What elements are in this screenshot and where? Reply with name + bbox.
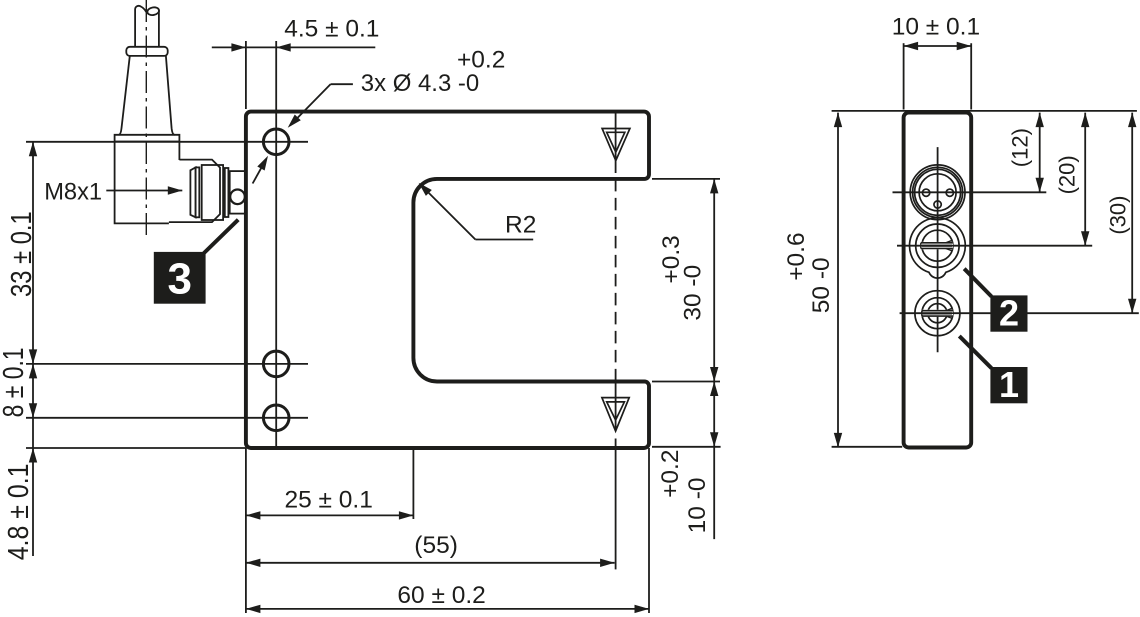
svg-text:33 ± 0.1: 33 ± 0.1 [5, 211, 38, 297]
dim 10 extension line right bottom [652, 446, 721, 448]
leader from 3x label to top hole [285, 84, 353, 131]
dim 8 dimension line [29, 364, 37, 418]
svg-text:4.5 ± 0.1: 4.5 ± 0.1 [284, 16, 379, 43]
svg-text:60 ± 0.2: 60 ± 0.2 [397, 582, 485, 609]
dim text 33 ± 0.1 rotated [5, 211, 38, 297]
dim (20) dimension line [1081, 113, 1089, 246]
svg-text:R2: R2 [505, 212, 536, 239]
M8 pin 3 [946, 189, 953, 196]
arrow M8x1 to connector [106, 186, 182, 194]
svg-text:10 -0: 10 -0 [684, 477, 711, 533]
svg-text:(55): (55) [414, 532, 458, 559]
dim 50 dimension line [834, 113, 842, 448]
leader from label 2 to pot 2 [964, 269, 991, 297]
optical axis extension below body [615, 448, 617, 569]
svg-text:+0.6: +0.6 [783, 232, 810, 280]
side view bottom extension line left [832, 446, 903, 448]
mounting hole middle [263, 351, 289, 377]
svg-text:8 ± 0.1: 8 ± 0.1 [0, 347, 30, 417]
connector boot body [115, 142, 180, 224]
M8 tip body at sensor [230, 171, 246, 214]
dim text (30) rotated [1105, 196, 1130, 235]
M8 locking detent circle [230, 190, 245, 205]
svg-text:(20): (20) [1054, 155, 1079, 194]
M8 coupling nut [202, 165, 223, 220]
side view common top extension line [832, 110, 1137, 112]
svg-text:4.8 ± 0.1: 4.8 ± 0.1 [2, 463, 34, 560]
svg-text:30 -0: 30 -0 [680, 265, 707, 321]
dim text 50 +0.6/-0 rotated [783, 232, 835, 313]
optical mark triangle top (emitter) [602, 129, 630, 161]
dim text 25 ± 0.1 [285, 487, 373, 514]
dim text 10 ± 0.1 [892, 14, 980, 41]
dim 25 dimension line [246, 511, 414, 519]
M8 connector face circles [910, 165, 965, 220]
dim text 4.8 ± 0.1 rotated [2, 463, 34, 560]
middle hole crosshair horizontal [26, 363, 308, 365]
connector flange [115, 135, 180, 142]
pot 2 inner circles [916, 224, 959, 267]
dim text 30 +0.3/-0 rotated [658, 235, 707, 320]
connector centerline dash-dot vertical [145, 0, 147, 237]
svg-text:3: 3 [167, 255, 191, 304]
dim 33 dimension line [29, 142, 37, 364]
svg-text:2: 2 [999, 293, 1019, 334]
M8 connector cable [135, 6, 160, 47]
label M8x1 [44, 179, 102, 206]
dim 4.5 dimension line with arrows [212, 43, 375, 51]
svg-text:25 ± 0.1: 25 ± 0.1 [285, 487, 373, 514]
dim 4.8 dimension line [29, 418, 37, 556]
dim (12) dimension line [1036, 113, 1044, 193]
sensor body side view [904, 113, 972, 448]
dim text 10 +0.2/-0 rotated [657, 450, 711, 534]
optical axis segment through bottom arm [615, 382, 617, 449]
pot 1 screw slot [922, 308, 953, 318]
pot 1 crosshair horizontal [900, 312, 1139, 314]
second leader arrow to top hole from lower left [253, 154, 272, 184]
dim 30 extension lines right [652, 179, 720, 382]
mounting hole top [263, 129, 289, 155]
pot 2 crosshair horizontal [897, 245, 1092, 247]
optical axis dashed centerline in slot [615, 179, 617, 382]
hole centerline vertical [275, 41, 277, 448]
dim text 4.5 ± 0.1 [284, 16, 379, 43]
callout label 2 black box [990, 293, 1027, 334]
dim (30) dimension line [1128, 113, 1136, 314]
dim text (20) rotated [1054, 155, 1079, 194]
dim 10 dimension line [710, 382, 718, 540]
label 3x Ø4.3 +0.2/-0 [361, 47, 506, 97]
callout label 1 black box [990, 364, 1027, 405]
bottom edge extension line left [26, 447, 246, 449]
svg-text:50 -0: 50 -0 [808, 257, 835, 313]
pot 2 screw slot [921, 240, 954, 251]
svg-text:(12): (12) [1008, 128, 1033, 167]
pot 1 circles [915, 291, 960, 336]
dim text (55) [414, 532, 458, 559]
dim (55) dimension line [246, 559, 615, 567]
M8 rear band [225, 168, 229, 217]
M8 face crosshair horizontal [893, 191, 1047, 193]
optical axis solid segment through top arm [615, 112, 617, 173]
pot 2 keyhole outline [910, 218, 966, 278]
svg-text:+0.2: +0.2 [457, 47, 505, 74]
top hole crosshair horizontal [26, 141, 308, 143]
dim 4.5 extension line body edge [245, 41, 247, 109]
svg-text:M8x1: M8x1 [44, 179, 102, 206]
connector strain relief taper [119, 56, 175, 135]
svg-text:(30): (30) [1105, 196, 1130, 235]
connector housing chamfered profile [169, 160, 220, 223]
bottom extension lines [246, 448, 649, 613]
leader from label 3 to connector [204, 220, 239, 254]
M8 pin 4 [934, 201, 941, 208]
dim 10 ± 0.1 dimension line [904, 42, 972, 50]
dim 30 dimension line [710, 179, 718, 382]
dim 60 dimension line [246, 605, 649, 613]
M8 thread cone [190, 167, 195, 217]
sensor body U-shaped outline [246, 112, 649, 448]
label R2 [505, 212, 536, 239]
bottom hole crosshair horizontal [26, 417, 308, 419]
leader R2 [416, 180, 534, 240]
callout label 3 black box [154, 252, 206, 304]
dim text 60 ± 0.2 [397, 582, 485, 609]
mounting hole bottom [263, 405, 289, 431]
svg-text:3x Ø 4.3 -0: 3x Ø 4.3 -0 [361, 70, 479, 97]
dim 10 ± 0.1 top extension lines [904, 43, 972, 109]
svg-text:1: 1 [999, 364, 1019, 405]
side features vertical centerline [937, 147, 939, 352]
connector strain relief cap [126, 47, 167, 56]
M8 pin 1 [922, 189, 929, 196]
dim text 8 ± 0.1 rotated [0, 347, 30, 417]
M8 thread band [196, 167, 200, 217]
optical mark triangle bottom (receiver) [602, 398, 629, 432]
svg-text:+0.2: +0.2 [657, 450, 684, 498]
dim text (12) rotated [1008, 128, 1033, 167]
svg-text:10 ± 0.1: 10 ± 0.1 [892, 14, 980, 41]
leader from label 1 to pot 1 [959, 336, 991, 368]
